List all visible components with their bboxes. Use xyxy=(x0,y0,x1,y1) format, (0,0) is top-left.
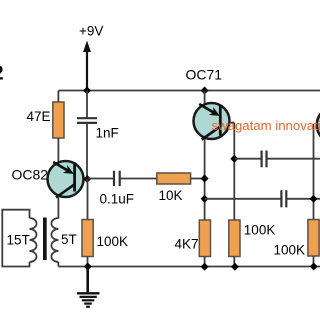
capacitor C4 xyxy=(281,190,286,207)
svg-text:47E: 47E xyxy=(27,109,51,124)
capacitor C3 xyxy=(262,151,267,168)
node: lower coupling junction xyxy=(201,195,209,203)
wire: bottom ground rail xyxy=(58,266,320,268)
svg-text:10K: 10K xyxy=(159,188,183,203)
wire: right 100K to ground rail xyxy=(313,256,315,267)
wire: +9V supply lead xyxy=(86,49,88,91)
wire: 10K to OC71 collector node xyxy=(191,178,205,180)
wire: upper coupling wire to C3 xyxy=(234,158,260,160)
svg-text:0.1uF: 0.1uF xyxy=(100,192,135,207)
node: supply junction (1nF branch) xyxy=(83,87,91,95)
wire: OC71 base lead down to 100K xyxy=(233,123,235,221)
node: 10K / collector junction xyxy=(201,175,209,183)
resistor 4K7 xyxy=(199,220,210,257)
wire: rail to OC71 emitter xyxy=(204,91,206,105)
resistor 47E xyxy=(53,102,64,138)
svg-text:4K7: 4K7 xyxy=(175,237,199,252)
svg-text:OC71: OC71 xyxy=(186,67,223,83)
svg-text:1nF: 1nF xyxy=(96,126,119,141)
primary winding 15T xyxy=(30,218,37,262)
wire: 1nF bottom plate to OC82 base node xyxy=(86,123,88,179)
transistor Q3 (partial, right edge) xyxy=(317,107,320,143)
resistor 100K (OC71 base) xyxy=(229,220,240,257)
resistor 10K xyxy=(157,173,191,184)
wire: C4 to right edge xyxy=(287,198,320,200)
transformer T1: primary loop wire xyxy=(2,210,29,267)
svg-text:100K: 100K xyxy=(274,243,306,258)
transistor OC71 xyxy=(194,103,235,140)
svg-text:2: 2 xyxy=(0,63,4,85)
node: 100K ground junction xyxy=(231,263,239,271)
capacitor 0.1uF xyxy=(114,171,120,186)
svg-text:5T: 5T xyxy=(61,232,77,247)
svg-text:swagatam innovations: swagatam innovations xyxy=(212,118,320,133)
node: OC82 base junction xyxy=(83,175,91,183)
wire: top supply rail xyxy=(58,90,320,92)
wire: 100K to ground rail xyxy=(233,257,235,267)
svg-text:100K: 100K xyxy=(244,223,276,238)
transistor OC82 xyxy=(48,161,88,198)
wire: rail to 1nF top plate xyxy=(86,91,88,119)
wire: 5T bottom to ground rail xyxy=(57,262,59,267)
node: right ground junction xyxy=(310,263,318,271)
ground xyxy=(77,267,100,307)
resistor 100K (OC82 base bias) xyxy=(82,220,93,257)
secondary winding 5T xyxy=(51,218,58,262)
wire: right branch vertical xyxy=(313,124,315,220)
resistor 100K (right) xyxy=(308,220,319,257)
node: upper coupling junction xyxy=(230,155,238,163)
svg-text:OC82: OC82 xyxy=(12,167,49,183)
wire: 0.1uF to 10K xyxy=(121,178,158,180)
svg-text:+9V: +9V xyxy=(79,24,103,39)
wire: OC82 collector down to 5T winding xyxy=(57,197,59,219)
wire: 100K bottom to ground rail xyxy=(87,257,89,267)
wire: 4K7 to ground rail xyxy=(204,257,206,267)
transformer core xyxy=(43,218,47,261)
wire: lower coupling wire to C4 xyxy=(205,198,281,200)
wire: base node to 0.1uF xyxy=(88,178,114,180)
node: right lower junction xyxy=(310,195,318,203)
wire: OC71 collector lead down to 4K7 xyxy=(204,139,206,221)
svg-text:100K: 100K xyxy=(97,234,129,249)
node: OC71 emitter junction on rail xyxy=(201,87,209,95)
node: ground junction xyxy=(84,263,92,271)
svg-text:15T: 15T xyxy=(7,233,30,248)
wire: 47E to OC82 emitter xyxy=(57,138,59,162)
wire: OC82 base node down to 100K xyxy=(87,179,89,220)
wire: rail corner down to 47E xyxy=(57,91,59,103)
wire: C3 to right edge xyxy=(268,158,320,160)
capacitor 1nF xyxy=(77,118,97,123)
node: 4K7 ground junction xyxy=(201,263,209,271)
+9V supply arrow xyxy=(83,41,91,53)
